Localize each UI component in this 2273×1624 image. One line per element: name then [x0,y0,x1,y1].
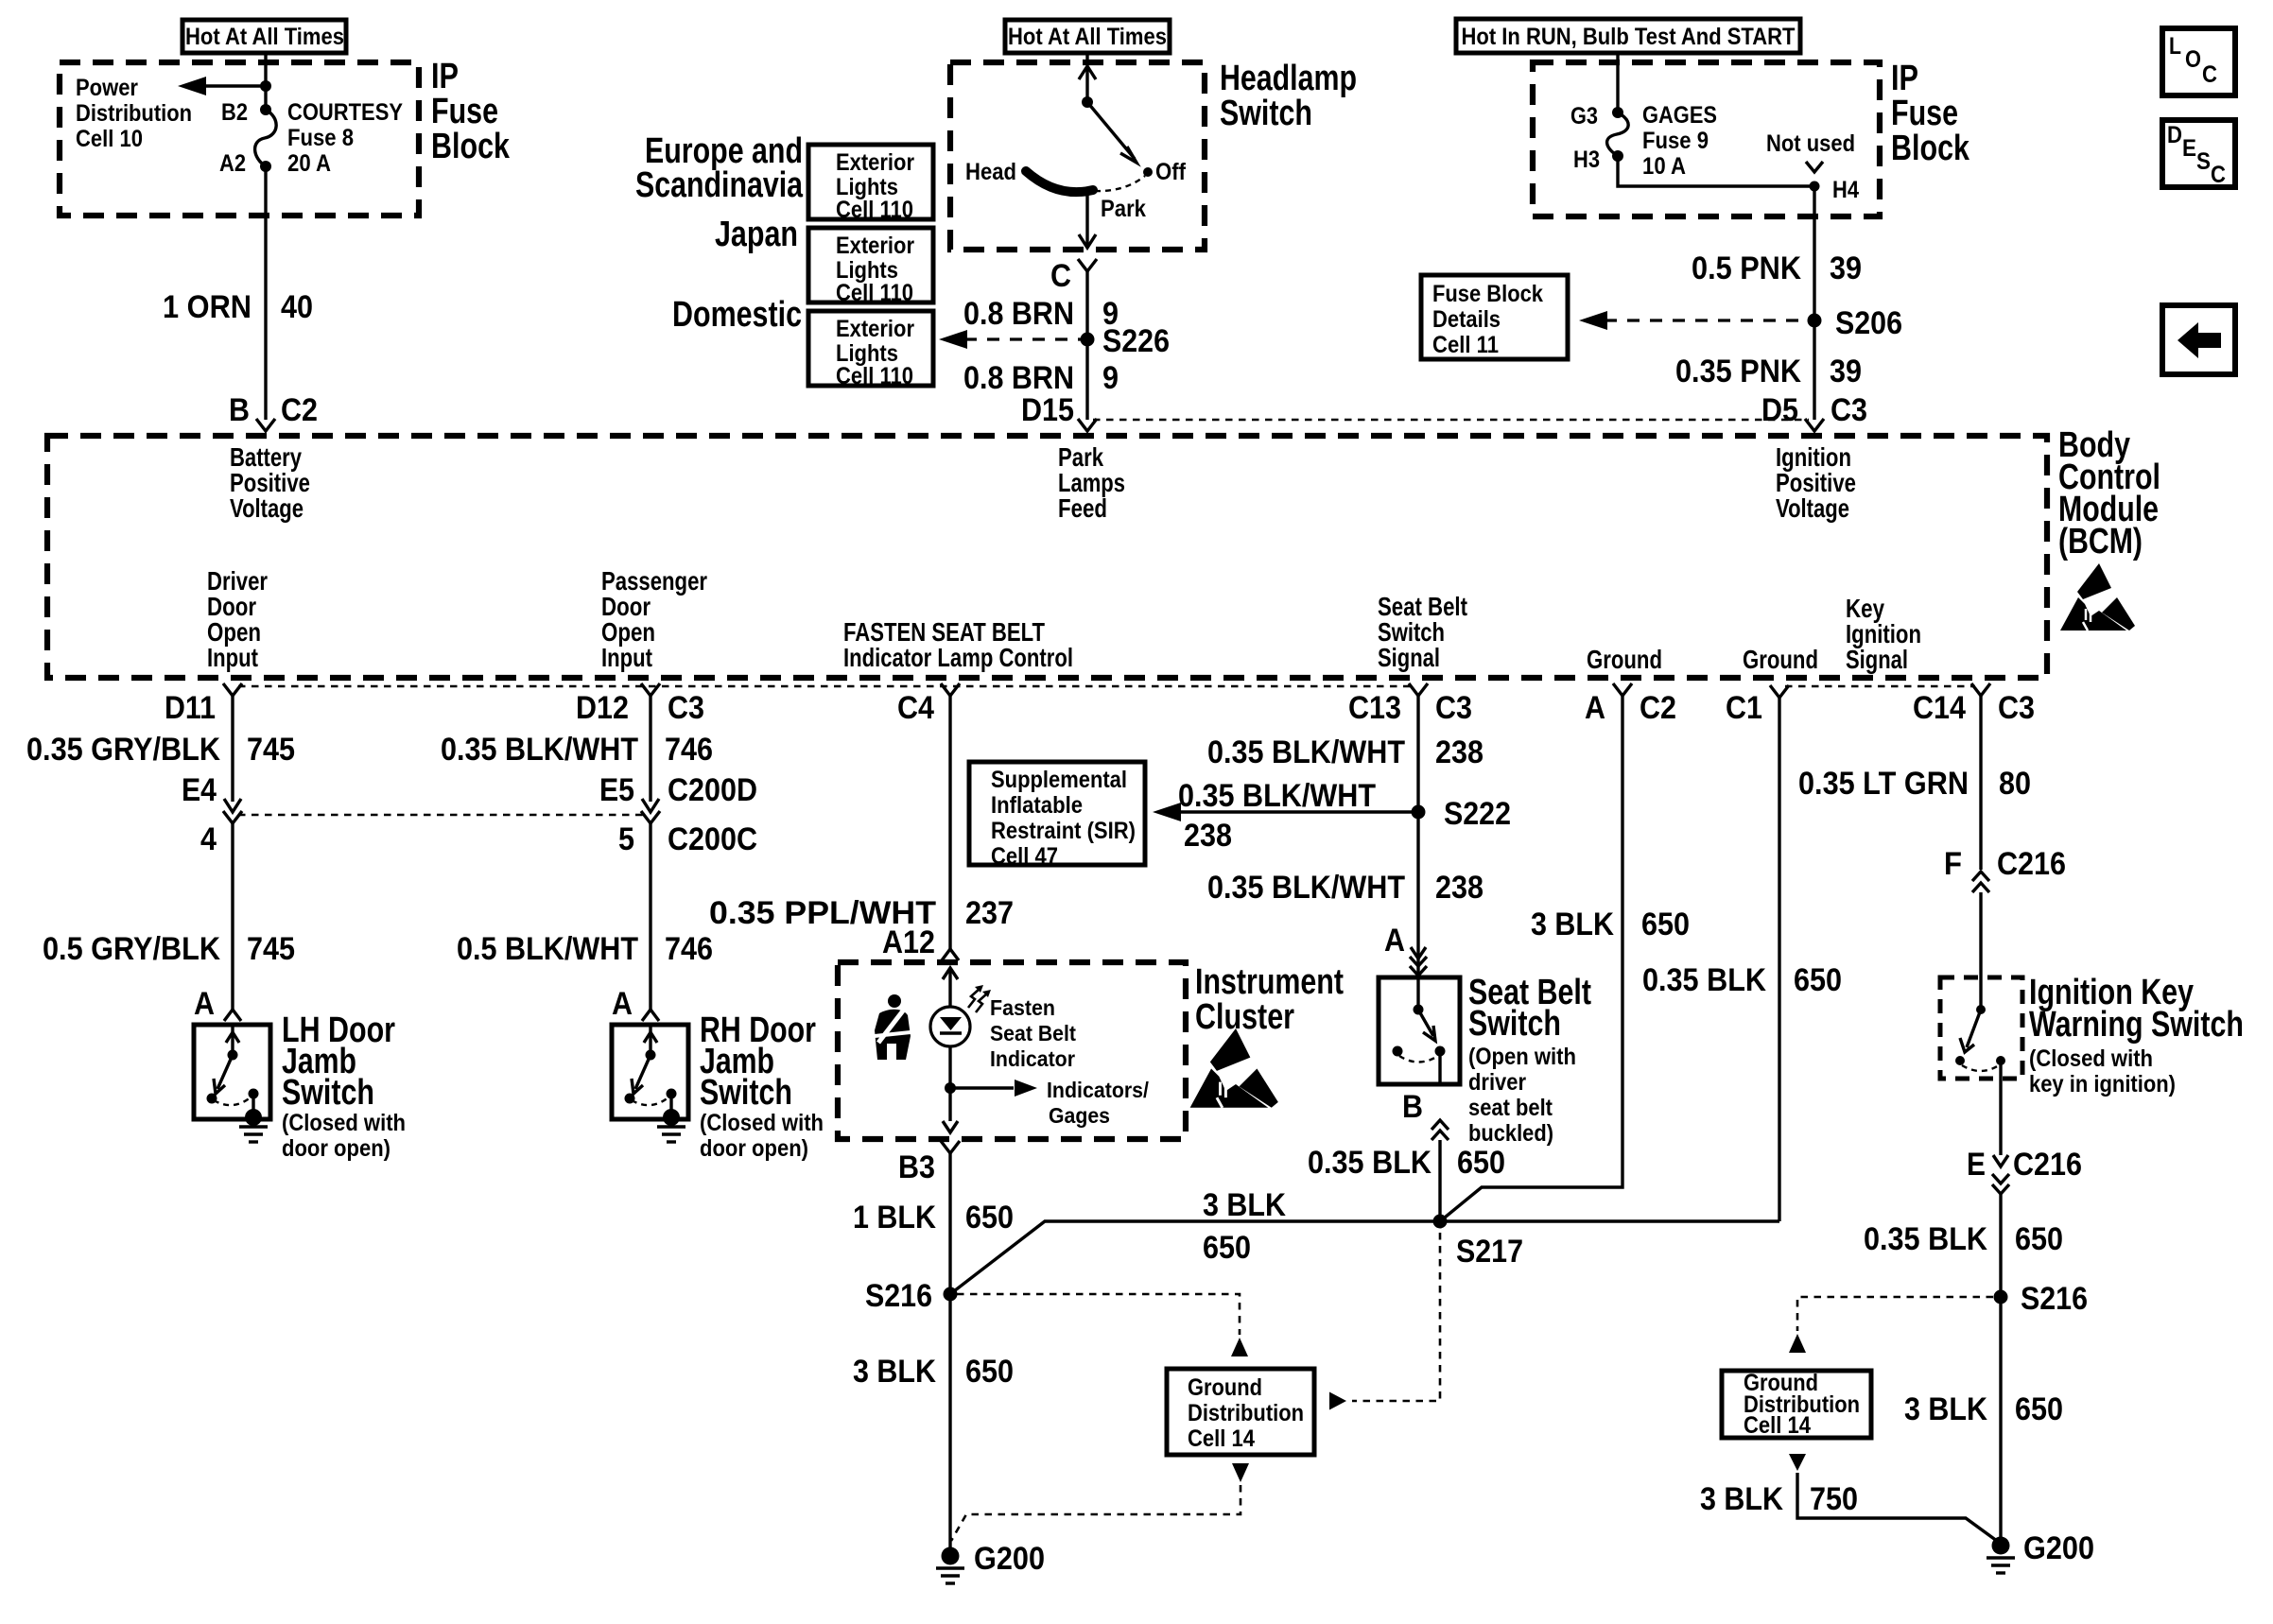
svg-text:buckled): buckled) [1468,1120,1553,1147]
wire from ignition switch to C216 E [1993,1079,2008,1166]
svg-text:S216: S216 [2021,1281,2088,1317]
svg-text:650: 650 [1203,1230,1251,1266]
ground G200 dot (right) [1992,1537,2010,1555]
svg-text:Cell 110: Cell 110 [836,197,913,223]
splice S206 dot [1808,314,1822,328]
wire label 0.5 PNK / 39 [1692,251,1862,286]
svg-text:G200: G200 [2023,1530,2094,1566]
ESD sensitivity symbol [2060,563,2135,631]
Exterior Lights Cell 110 box (Europe) [808,145,933,223]
label S226 [1102,323,1170,359]
label C13 / C3 [1348,690,1472,726]
svg-text:746: 746 [665,931,713,967]
ignition switch output stem [1999,1061,2002,1079]
svg-text:Fuse 8: Fuse 8 [287,125,354,151]
wire 237 from BCM C4 to cluster A12 [948,696,951,949]
wire Park output with arrow [1079,192,1096,248]
svg-text:E: E [2182,135,2196,162]
svg-text:A2: A2 [219,150,246,177]
LH switch ground dot [245,1109,262,1126]
seat belt switch contact dot (left) [1393,1046,1403,1057]
svg-text:(Open with: (Open with [1468,1044,1576,1070]
svg-text:0.8 BRN: 0.8 BRN [963,360,1074,396]
svg-text:0.5 PNK: 0.5 PNK [1692,251,1801,286]
BCM pin C13 chevron [1409,683,1428,696]
svg-text:0.5 BLK/WHT: 0.5 BLK/WHT [457,931,638,967]
dashed reference from Ground Distribution to G200 wire (left) [951,1463,1249,1541]
headlamp switch dashed box [950,62,1205,250]
svg-text:A: A [1384,923,1405,959]
wire 238 from BCM C13 to seat belt switch [1416,696,1419,977]
svg-text:Exterior: Exterior [836,233,914,259]
fasten seat belt LED circle [930,1007,970,1046]
seat belt switch output stem [1438,1051,1441,1084]
power label box: Hot At All Times (middle) [1005,20,1170,53]
thick arc Head to Park [1026,171,1093,192]
svg-text:E: E [1967,1147,1986,1183]
svg-text:C13: C13 [1348,690,1401,726]
Instrument Cluster dashed box [838,962,1186,1139]
RH switch pivot dot [646,1050,656,1061]
label Fasten Seat Belt Indicator [990,995,1076,1071]
svg-text:Voltage: Voltage [1776,493,1849,523]
ESD symbol (instrument cluster) [1190,1028,1278,1108]
svg-text:A: A [194,986,215,1022]
label Off [1155,159,1187,185]
svg-text:S226: S226 [1102,323,1170,359]
wire label 0.5 GRY/BLK / 745 [43,931,295,967]
label G200 (right) [2023,1530,2094,1566]
svg-text:B: B [229,392,250,428]
svg-text:C: C [1050,258,1071,294]
Not used terminal chevron [1806,162,1823,172]
label C [1050,258,1071,294]
connector C200 chevron (E5/5) [641,811,660,823]
RH switch ground stem [669,1094,672,1116]
label D5 / C3 [1761,392,1867,428]
seat belt person icon [875,994,911,1060]
label G200 (left) [974,1541,1045,1577]
ignition switch feed stub [1979,977,1982,1010]
wire label 0.35 LT GRN / 80 [1798,766,2031,802]
svg-text:A: A [612,986,633,1022]
label Park [1101,196,1146,222]
svg-text:B: B [1402,1089,1423,1125]
arrow to Power Distribution Cell 10 [178,77,266,95]
BCM pin C14 chevron [1971,683,1990,696]
svg-text:A: A [1585,690,1605,726]
label Headlamp Switch [1220,59,1357,133]
wire label 0.35 BLK / 650 (C1 drop) [1642,962,1842,998]
svg-text:3 BLK: 3 BLK [1700,1481,1783,1517]
LH switch contact dot (left) [207,1094,217,1104]
label D15 [1021,392,1074,428]
wire label 0.35 PPL/WHT / 237 [709,895,1014,931]
dashed reference arrow to Exterior Lights [939,330,1081,349]
svg-text:237: 237 [965,895,1014,931]
stub wire into headlamp switch box [1085,53,1088,62]
svg-text:Distribution: Distribution [76,100,192,127]
label Japan [715,215,798,254]
Ignition Key Warning Switch dashed box [1940,977,2022,1079]
svg-text:3 BLK: 3 BLK [853,1354,936,1390]
RH switch ground dot [663,1109,680,1126]
svg-text:L: L [2169,33,2181,60]
BCM pin B connector C2 chevron [256,419,275,431]
LH switch dashed arc [214,1097,252,1105]
LH switch blade arrow [214,1055,233,1094]
wire label 3 BLK over S217 run [1203,1187,1286,1223]
dashed reference arrow to Fuse Block Details [1579,311,1808,330]
fuse GAGES Fuse 9 pin label G3 [1570,103,1598,130]
label Domestic [672,295,802,335]
Supplemental Inflatable Restraint (SIR) Cell 47 box [969,762,1145,870]
svg-text:Fuse 9: Fuse 9 [1642,128,1709,154]
ignition switch contact dot (right) [1996,1056,2005,1065]
svg-text:Voltage: Voltage [230,493,304,523]
label S216 (right) [2021,1281,2088,1317]
label (Open with driver seat belt buckled) [1468,1044,1576,1147]
svg-text:0.35 BLK/WHT: 0.35 BLK/WHT [441,732,638,768]
wire label 0.35 BLK/WHT / 238 (upper) [1207,734,1484,770]
wire 746 from BCM D12 to C200 E5 [642,696,659,812]
label Seat Belt Switch [1468,973,1591,1044]
label Indicators/ Gages [1047,1078,1149,1128]
seat belt switch pin B connector [1431,1120,1449,1140]
wire label 0.5 BLK/WHT / 746 [457,931,713,967]
label RH Door Jamb Switch [700,1011,816,1113]
wire label 0.8 BRN / 9 (upper) [963,296,1119,332]
wire label 0.35 BLK / 650 (right) [1864,1221,2063,1257]
svg-text:E5: E5 [599,772,634,808]
svg-text:Switch: Switch [282,1073,374,1113]
svg-text:(Closed with: (Closed with [2029,1045,2153,1072]
label S222 [1444,796,1511,832]
svg-text:Power: Power [76,75,138,101]
svg-text:Exterior: Exterior [836,316,914,342]
svg-text:Switch: Switch [700,1073,792,1113]
ignition switch pivot dot [1976,1005,1986,1014]
svg-text:Hot At All Times: Hot At All Times [185,24,344,50]
LH switch arm arrow up [226,1025,239,1055]
svg-text:C2: C2 [1640,690,1676,726]
seat belt switch feed stub [1416,977,1419,1010]
svg-text:40: 40 [281,289,313,325]
svg-text:C4: C4 [897,690,934,726]
wire from Hot At All Times into fuse block [264,53,267,110]
ground G200 dot (left) [942,1547,960,1565]
Exterior Lights Cell 110 box (Domestic) [808,311,933,389]
label E5 / C200D [599,772,757,808]
svg-text:Seat Belt: Seat Belt [990,1021,1076,1045]
svg-text:0.35 BLK: 0.35 BLK [1308,1145,1431,1181]
wire label 1 BLK / 650 [853,1200,1014,1235]
wire 650 jog from S216 up to S217 run [950,1221,1779,1294]
label Instrument Cluster [1195,962,1344,1037]
svg-text:IP: IP [431,57,459,96]
svg-text:Cell 110: Cell 110 [836,280,913,306]
svg-text:Fuse Block: Fuse Block [1432,281,1543,307]
label D11 [165,690,216,726]
svg-text:C216: C216 [2013,1147,2082,1183]
svg-text:H4: H4 [1832,177,1859,203]
label LH Door Jamb Switch [282,1011,395,1113]
svg-text:238: 238 [1184,818,1232,854]
svg-text:D12: D12 [576,690,629,726]
splice S217 dot [1433,1215,1448,1229]
label B / C2 [229,392,318,428]
connector C3 thin dashed line D15 to D5 [1093,419,1809,422]
svg-text:S216: S216 [865,1278,932,1314]
svg-text:C3: C3 [1998,690,2035,726]
svg-text:D5: D5 [1761,392,1798,428]
svg-text:C3: C3 [668,690,704,726]
BCM label Ground (C1) [1743,645,1818,674]
svg-text:5: 5 [618,821,634,857]
LED diode triangle [940,1017,962,1033]
BCM pin A chevron [1613,683,1632,696]
label: Power Distribution Cell 10 [76,75,192,152]
splice S216 dot (right) [1994,1290,2008,1304]
fuse COURTESY Fuse 8 20 A symbol [255,104,277,172]
connector thin dashed line D11 to C13 [238,685,1413,688]
svg-text:C14: C14 [1913,690,1966,726]
label H4 [1832,177,1859,203]
label S216 (left) [865,1278,932,1314]
ground symbol G200 (right) [1987,1558,2015,1573]
svg-text:Feed: Feed [1058,493,1107,523]
svg-text:650: 650 [965,1354,1014,1390]
svg-text:Head: Head [965,159,1016,185]
svg-text:Cell 14: Cell 14 [1188,1425,1255,1452]
BCM pin D15 chevron [1078,419,1097,431]
svg-text:Block: Block [431,127,511,166]
svg-text:Cluster: Cluster [1195,997,1294,1037]
svg-text:Ground: Ground [1587,645,1662,674]
svg-text:Park: Park [1101,196,1146,222]
svg-text:39: 39 [1830,354,1862,389]
svg-text:238: 238 [1435,734,1484,770]
wire from C216 F to ignition key switch [1979,892,1982,977]
wire label 238 (SIR branch) [1184,818,1232,854]
svg-text:20 A: 20 A [287,150,331,177]
RH switch contact dot (left) [625,1094,635,1104]
svg-text:Signal: Signal [1378,643,1440,672]
Ground Distribution Cell 14 box (right) [1722,1370,1871,1439]
svg-text:Fuse: Fuse [1891,94,1958,133]
label Ignition Key Warning Switch [2029,973,2244,1045]
wire 650 from C216 E to G200 (right) [1999,1194,2002,1547]
label C14 / C3 [1913,690,2035,726]
headlamp switch blade arrow to Off [1087,102,1136,163]
wire 745 from C200 to LH door jamb switch [231,823,234,1010]
BCM label Seat Belt Switch Signal [1378,592,1467,672]
svg-text:driver: driver [1468,1069,1526,1096]
svg-text:(Closed with: (Closed with [700,1110,824,1136]
svg-text:650: 650 [965,1200,1014,1235]
cluster pin B3 chevron [941,1141,960,1153]
connector C216 F chevrons [1972,872,1989,892]
svg-text:B3: B3 [898,1149,935,1185]
svg-text:238: 238 [1435,870,1484,906]
svg-text:650: 650 [1794,962,1842,998]
svg-text:Input: Input [207,643,258,672]
svg-text:Headlamp: Headlamp [1220,59,1357,98]
svg-text:door open): door open) [700,1135,808,1162]
label (Closed with key in ignition) [2029,1045,2176,1097]
wire label 3 BLK / 650 (right) [1904,1391,2063,1427]
svg-text:G3: G3 [1570,103,1598,130]
svg-text:C3: C3 [1435,690,1472,726]
wire 80 from BCM C14 to C216 F [1979,696,1982,870]
svg-text:Cell 11: Cell 11 [1432,332,1499,358]
Ground Distribution Cell 14 box (left) [1167,1369,1314,1455]
svg-text:650: 650 [1457,1145,1505,1181]
svg-text:0.5 GRY/BLK: 0.5 GRY/BLK [43,931,220,967]
connector C200 thin dashed line [238,814,645,817]
splice S222 dot [1412,805,1426,820]
seat belt switch contact dot (right) [1435,1046,1446,1057]
svg-text:C1: C1 [1726,690,1762,726]
svg-text:S217: S217 [1456,1234,1523,1270]
LH switch pin A chevron [224,1010,241,1021]
junction dot feeding Power Distribution arrow [260,80,271,92]
label A (LH switch pin) [194,986,215,1022]
svg-text:Supplemental: Supplemental [991,767,1127,793]
svg-text:Switch: Switch [1220,94,1312,133]
wire label 0.35 BLK / 650 (switch drop) [1308,1145,1505,1181]
label: IP Fuse Block (left) [431,57,511,166]
LH Door Jamb Switch box [194,1025,270,1119]
svg-text:Input: Input [601,643,652,672]
back arrow icon box [2162,305,2235,374]
BCM pin C1 chevron [1770,685,1789,698]
wire 650 from BCM ground C1 to S217 run [1778,698,1780,1221]
svg-text:39: 39 [1830,251,1862,286]
wire 746 from C200 to RH door jamb switch [649,823,651,1010]
svg-text:Cell 47: Cell 47 [991,843,1058,870]
svg-text:3 BLK: 3 BLK [1203,1187,1286,1223]
ground symbol (LH door jamb switch) [239,1127,268,1142]
label A (seat belt switch pin) [1384,923,1405,959]
wire 650 from seat belt switch B to S217 [1438,1140,1441,1221]
svg-text:GAGES: GAGES [1642,102,1717,129]
wire from fuse 9 to H4 [1618,156,1814,186]
dashed reference from S216 to Ground Distribution [957,1294,1248,1356]
svg-text:IP: IP [1891,59,1918,98]
ignition switch blade arrow [1960,1010,1981,1052]
connector C200 chevron (E4/4) [223,811,242,823]
LH switch contact dot (right) [249,1089,259,1099]
ground symbol (RH door jamb switch) [657,1127,685,1142]
svg-text:1 BLK: 1 BLK [853,1200,936,1235]
svg-text:Distribution: Distribution [1188,1400,1304,1426]
label Head [965,159,1016,185]
svg-text:Exterior: Exterior [836,149,914,176]
wire 650 from S216 to G200 (left) [948,1294,951,1547]
svg-text:COURTESY: COURTESY [287,99,403,126]
label A (RH switch pin) [612,986,633,1022]
dashed reference from S216 (right) to Ground Distribution [1789,1297,1993,1353]
svg-text:0.35 GRY/BLK: 0.35 GRY/BLK [26,732,220,768]
svg-text:Warning Switch: Warning Switch [2029,1005,2244,1045]
LOC icon box [2162,28,2235,95]
svg-text:C200C: C200C [668,821,757,857]
svg-text:A12: A12 [882,924,935,960]
label C4 [897,690,934,726]
svg-text:Off: Off [1155,159,1187,185]
svg-text:650: 650 [2015,1391,2063,1427]
svg-text:Signal: Signal [1846,645,1908,674]
ignition switch dashed arc [1962,1065,1999,1071]
svg-text:E4: E4 [182,772,217,808]
label F / C216 [1944,846,2066,882]
svg-text:4: 4 [200,821,217,857]
wire label 0.35 BLK/WHT (SIR branch) [1178,778,1376,814]
svg-text:door open): door open) [282,1135,390,1162]
cluster internal junction dot [945,1082,956,1094]
ground symbol G200 (left) [936,1568,964,1583]
svg-text:Instrument: Instrument [1195,962,1344,1002]
svg-text:Cell 110: Cell 110 [836,363,913,389]
BCM pin C4 chevron [941,683,960,696]
svg-text:Cell 14: Cell 14 [1744,1412,1811,1439]
label C1 [1726,690,1762,726]
fuse F8 pin label B2 [221,99,248,126]
svg-text:9: 9 [1102,360,1119,396]
svg-text:Fasten: Fasten [990,995,1055,1020]
label S217 [1456,1234,1523,1270]
cluster feed arrow up [943,968,958,1007]
svg-text:0.35 BLK/WHT: 0.35 BLK/WHT [1207,870,1405,906]
RH switch arm arrow up [644,1025,657,1055]
svg-text:750: 750 [1810,1481,1858,1517]
LH switch ground stem [252,1094,254,1116]
wire label 0.35 BLK/WHT / 238 (lower) [1207,870,1484,906]
svg-text:Japan: Japan [715,215,798,254]
wire 9 BRN from headlamp switch to BCM D15 [1085,271,1088,420]
svg-text:Cell 10: Cell 10 [76,126,143,152]
svg-text:S: S [2196,148,2211,175]
svg-text:0.35 BLK: 0.35 BLK [1642,962,1766,998]
svg-text:Fuse: Fuse [431,92,498,131]
arrow to Indicators/Gages [950,1080,1037,1097]
BCM pin D5 chevron [1805,419,1824,431]
wire 650 from BCM ground A/C2 to S217 [1440,696,1622,1221]
wire label 650 under S217 run [1203,1230,1251,1266]
svg-text:F: F [1944,846,1962,882]
headlamp switch feed arrow up [1079,66,1096,102]
label B3 [898,1149,935,1185]
wire label 3 BLK / 750 [1700,1481,1858,1517]
label 5 / C200C [618,821,757,857]
svg-text:0.8 BRN: 0.8 BRN [963,296,1074,332]
svg-text:0.35 LT GRN: 0.35 LT GRN [1798,766,1969,802]
svg-text:key in ignition): key in ignition) [2029,1071,2176,1097]
wire label 0.35 BLK/WHT / 746 [441,732,713,768]
svg-text:D15: D15 [1021,392,1074,428]
svg-text:B2: B2 [221,99,248,126]
headlamp switch C terminal chevron [1078,259,1097,271]
svg-text:745: 745 [247,732,295,768]
dashed reference from S217 to Ground Distribution [1329,1233,1440,1410]
DESC icon box [2162,120,2235,188]
RH Door Jamb Switch box [612,1025,688,1119]
svg-text:Gages: Gages [1049,1103,1110,1128]
svg-text:S206: S206 [1835,305,1902,341]
seat belt switch blade arrow [1418,1010,1435,1041]
seat belt switch dashed arc [1399,1056,1438,1063]
